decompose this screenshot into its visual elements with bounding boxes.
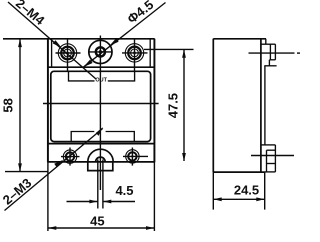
svg-text:24.5: 24.5 bbox=[234, 183, 259, 198]
svg-text:4.5: 4.5 bbox=[115, 183, 133, 198]
svg-text:45: 45 bbox=[90, 213, 104, 228]
svg-text:47.5: 47.5 bbox=[166, 93, 181, 118]
svg-text:2–M3: 2–M3 bbox=[0, 175, 34, 207]
svg-text:2–M4: 2–M4 bbox=[13, 0, 48, 28]
svg-text:58: 58 bbox=[1, 98, 16, 112]
svg-text:OUT: OUT bbox=[95, 77, 107, 83]
